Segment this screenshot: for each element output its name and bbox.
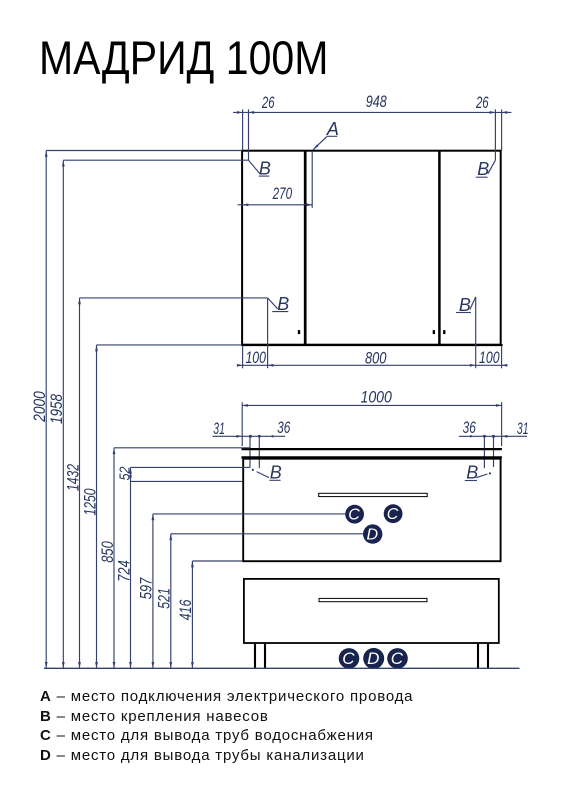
label A (electrical connection) (313, 119, 339, 150)
svg-text:52: 52 (116, 466, 133, 480)
vanity 1000 dimension (242, 387, 501, 446)
drain circle D upper (363, 524, 382, 543)
svg-text:521: 521 (155, 588, 174, 609)
height dimension 1250 (80, 345, 242, 668)
mirror cabinet left door partition (304, 151, 307, 344)
right door handle (443, 330, 445, 334)
label B top-left hinge (249, 158, 271, 178)
svg-text:C: C (391, 649, 404, 668)
height dimension 416 (176, 561, 242, 668)
vanity B label right (465, 463, 491, 483)
water supply circle C upper-left (345, 505, 364, 524)
label B bottom-right hinge (456, 295, 476, 368)
svg-text:B: B (459, 295, 471, 315)
svg-text:1958: 1958 (47, 394, 66, 424)
mirror cabinet outline (241, 151, 502, 345)
svg-text:26: 26 (261, 93, 275, 112)
svg-text:31: 31 (517, 419, 529, 438)
vanity right 31/36 dimension (459, 418, 529, 468)
svg-text:B: B (466, 463, 478, 483)
svg-text:800: 800 (365, 348, 387, 367)
bottom circle C left (339, 648, 360, 669)
bottom dimension line 100/800/100 (237, 346, 507, 368)
svg-text:36: 36 (277, 418, 291, 437)
vanity upper drawer box (243, 459, 500, 562)
legend line C (40, 727, 374, 744)
height dimension 1958 (47, 160, 248, 668)
svg-text:100: 100 (479, 348, 500, 367)
svg-text:850: 850 (98, 541, 117, 563)
right leg (478, 644, 488, 669)
water supply circle C upper-right (384, 504, 403, 523)
svg-text:C: C (348, 506, 360, 523)
vanity B label left (252, 462, 282, 482)
svg-text:597: 597 (137, 577, 156, 599)
svg-text:D: D (367, 527, 379, 544)
vanity countertop (242, 449, 502, 458)
legend line A (40, 688, 413, 705)
lower drawer handle (319, 598, 427, 601)
svg-text:C: C (342, 649, 355, 668)
svg-text:36: 36 (463, 418, 477, 437)
left leg (255, 644, 265, 669)
svg-text:1000: 1000 (360, 387, 392, 406)
legend line D (40, 747, 365, 764)
title МАДРИД 100М (39, 30, 328, 85)
mirror cabinet right door partition (438, 151, 441, 344)
height dimension 850 (98, 448, 250, 669)
middle door handle (433, 330, 435, 334)
label B top-right hinge (476, 159, 496, 179)
upper drawer handle (319, 493, 428, 496)
vanity left 31/36 dimension (212, 418, 290, 468)
svg-text:B: B (477, 159, 489, 179)
svg-text:26: 26 (475, 93, 489, 112)
height dimension 521 (155, 534, 364, 669)
bottom circle D (363, 648, 384, 669)
floor baseline (44, 667, 520, 669)
svg-text:1432: 1432 (63, 464, 82, 491)
height dimension 724 and offset 52 (114, 466, 250, 668)
left door handle (298, 330, 300, 334)
svg-text:948: 948 (366, 92, 387, 111)
svg-text:416: 416 (176, 599, 195, 620)
height dimension 2000 (30, 151, 242, 669)
svg-text:B: B (259, 158, 271, 178)
legend line B (40, 708, 269, 725)
svg-text:B: B (270, 462, 282, 482)
height dimension 1432 (63, 298, 267, 668)
svg-text:100: 100 (245, 348, 266, 367)
top dimension line 26/948/26 (233, 92, 511, 160)
svg-text:1250: 1250 (80, 488, 99, 515)
bottom circle C right (387, 648, 408, 669)
svg-text:31: 31 (213, 419, 225, 438)
svg-text:D: D (367, 649, 379, 668)
svg-text:724: 724 (114, 560, 133, 582)
height dimension 597 (137, 514, 346, 668)
dimension 270 (238, 151, 313, 208)
svg-text:270: 270 (272, 184, 293, 203)
vanity lower drawer box (244, 579, 499, 643)
label B bottom-left hinge (268, 294, 290, 368)
svg-text:C: C (387, 506, 399, 523)
